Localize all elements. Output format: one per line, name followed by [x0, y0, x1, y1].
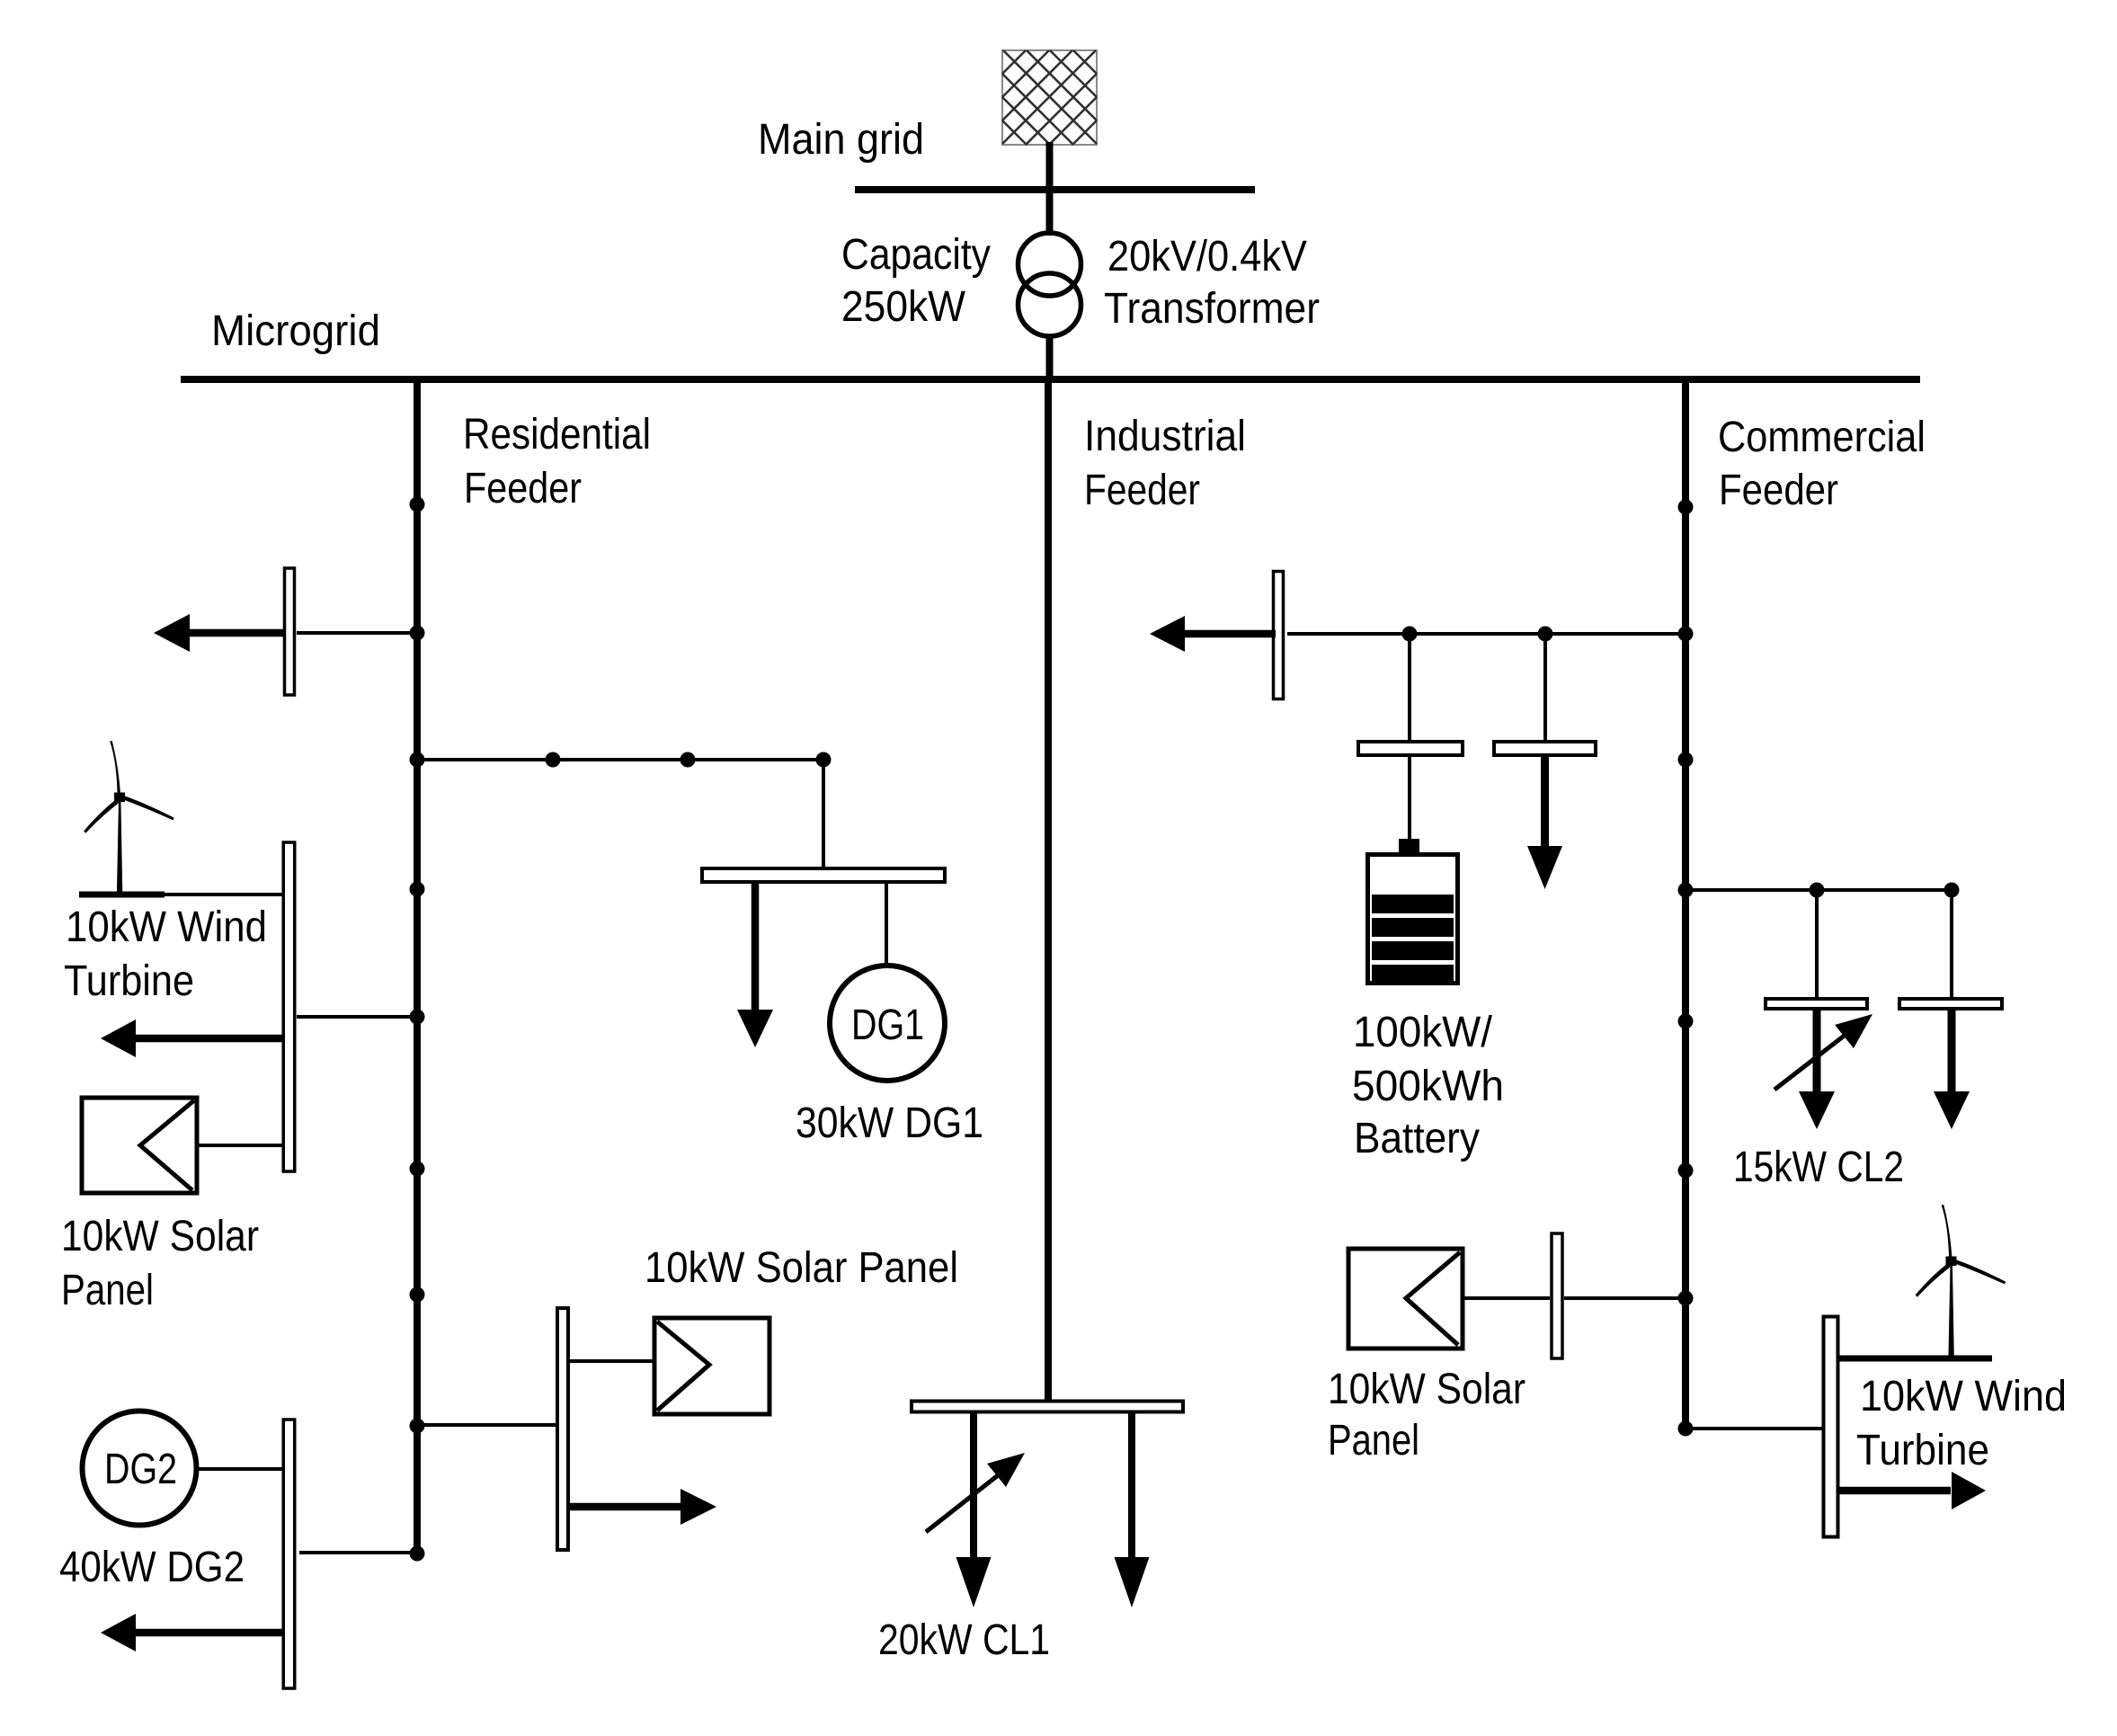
- svg-text:10kW Wind: 10kW Wind: [66, 904, 267, 951]
- svg-text:Transformer: Transformer: [1104, 285, 1320, 333]
- svg-text:Capacity: Capacity: [841, 231, 991, 279]
- svg-text:10kW Solar Panel: 10kW Solar Panel: [645, 1244, 958, 1292]
- svg-text:250kW: 250kW: [841, 283, 966, 331]
- svg-text:10kW Solar: 10kW Solar: [61, 1213, 259, 1260]
- svg-text:Turbine: Turbine: [64, 957, 194, 1005]
- svg-text:Battery: Battery: [1354, 1115, 1480, 1162]
- svg-text:10kW Solar: 10kW Solar: [1328, 1366, 1525, 1413]
- svg-text:Feeder: Feeder: [464, 465, 582, 512]
- svg-text:Panel: Panel: [1328, 1417, 1419, 1464]
- svg-text:30kW DG1: 30kW DG1: [796, 1099, 983, 1147]
- svg-text:100kW/: 100kW/: [1353, 1009, 1493, 1056]
- svg-text:Feeder: Feeder: [1084, 467, 1200, 514]
- svg-text:Microgrid: Microgrid: [211, 307, 380, 355]
- svg-text:DG1: DG1: [851, 1002, 924, 1049]
- svg-text:DG2: DG2: [104, 1446, 177, 1493]
- svg-text:Turbine: Turbine: [1856, 1427, 1989, 1474]
- svg-text:10kW Wind: 10kW Wind: [1860, 1373, 2067, 1420]
- svg-text:Feeder: Feeder: [1719, 467, 1838, 514]
- svg-text:40kW DG2: 40kW DG2: [59, 1544, 245, 1591]
- svg-text:Panel: Panel: [61, 1267, 154, 1314]
- svg-text:Industrial: Industrial: [1084, 413, 1246, 460]
- svg-text:20kW CL1: 20kW CL1: [878, 1616, 1050, 1664]
- svg-text:Residential: Residential: [463, 411, 651, 458]
- svg-text:500kWh: 500kWh: [1352, 1063, 1504, 1110]
- svg-text:Commercial: Commercial: [1718, 414, 1926, 461]
- svg-text:Main grid: Main grid: [758, 116, 924, 164]
- svg-text:20kV/0.4kV: 20kV/0.4kV: [1107, 233, 1307, 280]
- svg-text:15kW CL2: 15kW CL2: [1733, 1144, 1904, 1191]
